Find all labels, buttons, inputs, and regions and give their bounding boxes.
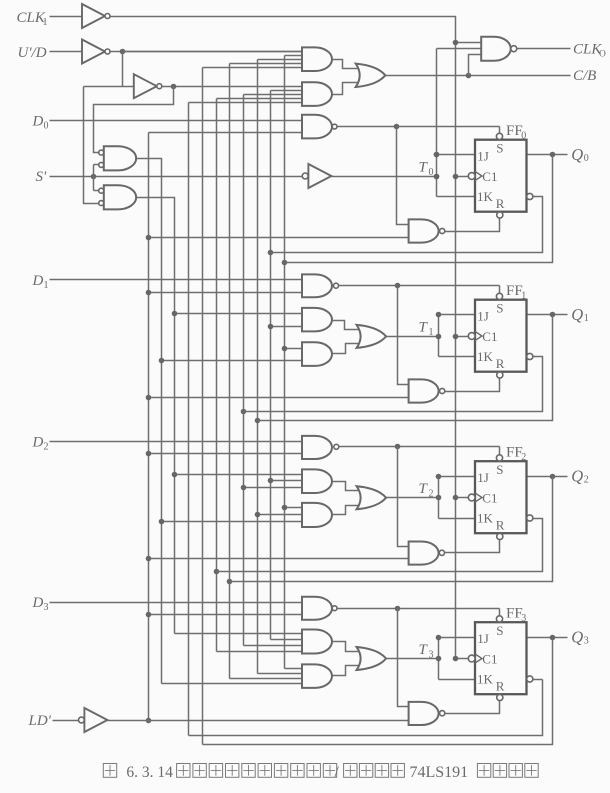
svg-text:1K: 1K: [477, 672, 494, 687]
and-gate G10a down term for T3: [302, 630, 332, 654]
svg-text:C1: C1: [482, 329, 497, 344]
svg-text:1J: 1J: [477, 149, 489, 164]
wire CLKO output: [518, 48, 571, 50]
wire LOAD vertical bus from LD' inverter with taps to load NAND gates: [146, 133, 409, 724]
nand-gate G3 load-set for FF1: [302, 274, 339, 297]
nand-gate G9 load-set for FF3: [302, 597, 337, 620]
wire UP-enable path: inverter2 output to AND2 and gate A: [94, 84, 303, 153]
svg-text:2: 2: [584, 475, 589, 486]
wire G7a to OR9: [333, 482, 361, 491]
wire R-reset net of FF2: [445, 540, 500, 553]
wire Q1 feedback bus vertical: [255, 60, 303, 674]
or-gate OR9 driving T2: [357, 486, 387, 509]
and-gate G10b up term for T3: [302, 664, 332, 688]
svg-text:3: 3: [44, 602, 49, 613]
svg-text:Q: Q: [571, 145, 583, 164]
wire D0 input net: [50, 120, 303, 122]
label T2 node: [419, 481, 434, 499]
wire gate B output / DOWN vertical bus: [137, 198, 303, 634]
wire AND1 input from U'/D inverter: [123, 51, 303, 53]
svg-text:1: 1: [584, 313, 589, 324]
wire D1 input net: [50, 279, 303, 281]
nand-gate G11 load-reset for FF3: [409, 702, 445, 725]
svg-text:C1: C1: [482, 652, 497, 667]
wire T0 net to 1J and 1K of FF0: [332, 152, 476, 197]
svg-text:2: 2: [429, 488, 434, 499]
inverter U2 on U'/D input: [82, 40, 110, 64]
wire AND1 to OR3: [333, 60, 359, 69]
nand-gate G6 load-set for FF2: [302, 436, 339, 459]
svg-text:R: R: [496, 196, 505, 211]
svg-text:S: S: [496, 141, 503, 156]
wire D3 input net: [50, 602, 303, 604]
svg-text:FF: FF: [506, 283, 523, 299]
svg-text:1K: 1K: [477, 511, 494, 526]
wire S-set net of FF0 (load NAND output to S pin and R NAND): [337, 124, 500, 225]
or-gate OR6 driving T1: [357, 325, 387, 348]
svg-text:LD': LD': [28, 713, 52, 729]
svg-text:3: 3: [429, 649, 434, 660]
svg-text:0: 0: [44, 121, 49, 132]
nand-gate G8 load-reset for FF2: [409, 542, 445, 565]
svg-text:R: R: [496, 518, 505, 533]
wire LD' input and load line to NAND13: [53, 720, 409, 722]
flip-flop FF1 (JK with S,R): [468, 293, 533, 378]
label T0 node: [419, 160, 434, 178]
label FF1 designator: [506, 283, 526, 301]
wire Q0 feedback bus vertical: [282, 56, 303, 669]
svg-text:1K: 1K: [477, 189, 494, 204]
svg-text:D: D: [32, 595, 44, 611]
svg-text:74LS191: 74LS191: [410, 764, 469, 781]
flip-flop FF2 (JK with S,R): [468, 455, 533, 540]
gate B: AND with inverted inputs (down enable): [99, 185, 137, 209]
nand-gate G2 load-reset for FF0: [409, 219, 445, 242]
wire Q2 feedback bus vertical: [227, 64, 303, 679]
wire T1 net to 1J and 1K of FF1: [387, 312, 476, 357]
svg-text:1J: 1J: [477, 470, 489, 485]
wire S-set net of FF2 (load NAND output to S pin and R NAND): [337, 444, 500, 547]
label Q1 output: [571, 305, 589, 324]
label Q3 output: [571, 628, 589, 647]
wire T3 net to 1J and 1K of FF3: [387, 635, 476, 680]
wire C/B output net from OR3: [386, 55, 571, 79]
wire Q3 output and feedback: [527, 635, 568, 641]
and-gate G7b up term for T2: [302, 503, 332, 527]
label Q2 output: [571, 467, 589, 486]
wire R-reset net of FF0: [445, 219, 500, 232]
or-gate OR3 driving C/B: [356, 64, 386, 87]
flip-flop FF3 (JK with S,R): [468, 616, 533, 701]
gate A: AND with inverted inputs (up enable): [99, 146, 136, 170]
svg-text:0: 0: [521, 130, 526, 141]
wire Q0-bar feedback bus vertical: [268, 91, 303, 640]
wire G4a to OR6: [333, 321, 361, 330]
wire S' enable net with branches to gates A and B: [50, 165, 303, 191]
wire R-reset net of FF3: [445, 701, 500, 714]
svg-text:S: S: [496, 623, 503, 638]
svg-text:/: /: [335, 764, 340, 781]
and-gate G4a up term for T1: [302, 308, 332, 332]
inverter U5 on LD' input: [79, 708, 108, 732]
wire Q3-bar output and feedback: [534, 679, 543, 681]
buffer U4 with inverted input driving T0: [302, 164, 331, 188]
flip-flop FF0 (JK with S,R): [468, 133, 533, 218]
svg-text:1J: 1J: [477, 631, 489, 646]
wire Q3 feedback bus vertical: [203, 68, 553, 745]
nand-gate G1 load-set for FF0: [302, 115, 337, 139]
caption figure title: [103, 764, 538, 782]
svg-text:FF: FF: [506, 445, 523, 461]
svg-text:D: D: [32, 114, 44, 130]
svg-text:2: 2: [44, 441, 49, 452]
svg-text:FF: FF: [506, 606, 523, 622]
svg-text:S': S': [36, 169, 48, 185]
wire Q2 output and feedback: [230, 474, 568, 582]
label FF3 designator: [506, 606, 526, 624]
label LD' input: [28, 713, 52, 729]
svg-text:1K: 1K: [477, 349, 494, 364]
label D2 input: [32, 434, 49, 452]
wire Q3-bar feedback bus vertical: [189, 103, 543, 736]
svg-text:D: D: [32, 434, 44, 450]
wire G7b to OR9: [333, 506, 361, 515]
wire G10b to OR12: [333, 666, 361, 676]
wire D2 input net: [50, 441, 303, 443]
svg-text:C/B: C/B: [573, 68, 596, 84]
svg-text:CLK: CLK: [17, 10, 46, 26]
svg-text:2: 2: [521, 452, 526, 463]
svg-text:Q: Q: [571, 467, 583, 486]
svg-text:Q: Q: [571, 305, 583, 324]
nand-gate G5 load-reset for FF1: [409, 379, 445, 402]
label D0 input: [32, 114, 49, 132]
svg-text:0: 0: [584, 153, 589, 164]
wire CLK1 net: input line, long horizontal to clock vertical, taps to C1 pins: [50, 17, 482, 662]
svg-text:1: 1: [43, 17, 48, 28]
svg-text:3: 3: [521, 613, 526, 624]
or-gate OR12 driving T3: [357, 647, 387, 670]
label D1 input: [32, 273, 49, 291]
svg-text:1: 1: [429, 327, 434, 338]
label Q0 output: [571, 145, 589, 164]
svg-text:1J: 1J: [477, 309, 489, 324]
wire Q2-bar output and feedback: [217, 519, 543, 572]
and-gate G4b down term for T1: [302, 342, 332, 366]
svg-text:O: O: [599, 50, 606, 60]
wire T2 net to 1J and 1K of FF2: [387, 474, 476, 519]
label FF0 designator: [506, 123, 526, 141]
label T1 node: [419, 320, 434, 338]
label FF2 designator: [506, 445, 526, 463]
wire AND2 to OR3: [333, 83, 359, 95]
wire Q0-bar output and feedback: [271, 197, 543, 253]
inverter U3 second U'/D inverter: [134, 74, 162, 98]
svg-text:6. 3. 14: 6. 3. 14: [126, 764, 173, 781]
svg-text:C1: C1: [482, 491, 497, 506]
and-gate AND2 (count-down min detect): [302, 82, 332, 106]
label CLK1 input: [17, 10, 48, 28]
label C/B output: [573, 68, 596, 84]
wire Q1-bar output and feedback: [244, 357, 543, 412]
svg-text:D: D: [32, 273, 44, 289]
label U'/D input: [18, 45, 47, 61]
wire U'/D input and inverted nets: [50, 49, 303, 204]
svg-text:3: 3: [584, 636, 589, 647]
label S' input: [36, 169, 48, 185]
wire enable vertical to CLKO NAND: [434, 49, 482, 197]
svg-text:R: R: [496, 679, 505, 694]
wire G10a to OR12: [333, 642, 361, 652]
wire R-reset net of FF1: [445, 379, 500, 392]
svg-text:0: 0: [429, 167, 434, 178]
svg-text:C1: C1: [482, 169, 497, 184]
wire S-set net of FF3 (load NAND output to S pin and R NAND): [337, 606, 500, 707]
svg-text:CLK: CLK: [573, 42, 602, 58]
wire G4b to OR6: [333, 344, 361, 354]
nand-gate G12 ripple clock CLKO: [481, 37, 517, 61]
svg-text:S: S: [496, 301, 503, 316]
svg-text:1: 1: [44, 280, 49, 291]
wire Q2-bar feedback bus vertical: [214, 99, 303, 652]
svg-text:FF: FF: [506, 123, 523, 139]
wire S-set net of FF1 (load NAND output to S pin and R NAND): [337, 283, 500, 385]
label D3 input: [32, 595, 49, 613]
and-gate AND1 (count-up max detect): [302, 47, 332, 71]
label T3 node: [419, 642, 434, 660]
svg-text:1: 1: [521, 290, 526, 301]
svg-text:Q: Q: [571, 628, 583, 647]
and-gate G7a down term for T2: [302, 469, 332, 493]
wire Q1 output and feedback: [258, 312, 568, 421]
label CLKO output: [573, 42, 606, 60]
wire Q0 output and feedback: [285, 152, 568, 263]
svg-text:S: S: [496, 462, 503, 477]
svg-text:R: R: [496, 356, 505, 371]
svg-text:U'/D: U'/D: [18, 45, 47, 61]
inverter U1 on CLK1 input: [82, 4, 110, 28]
wire gate A output / UP vertical bus: [137, 159, 303, 684]
wire Q1-bar feedback bus vertical: [241, 95, 303, 646]
